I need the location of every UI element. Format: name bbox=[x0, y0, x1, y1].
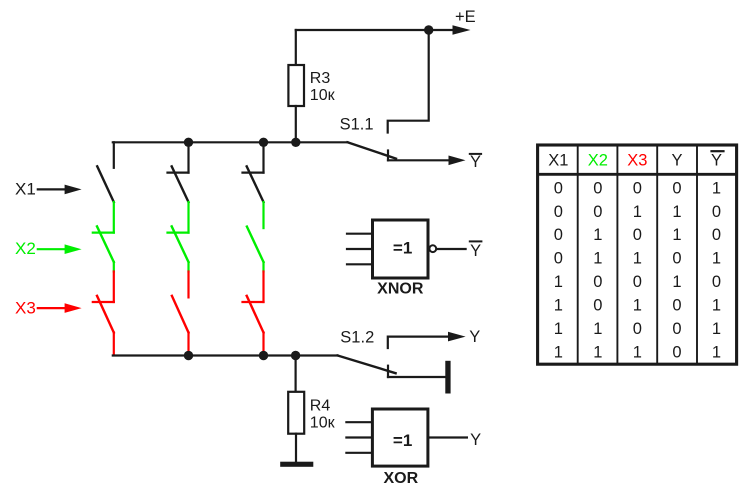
gate XOR input stubs bbox=[346, 421, 372, 423]
switch S1.2 blade bbox=[338, 356, 396, 374]
svg-text:1: 1 bbox=[672, 226, 681, 244]
svg-text:0: 0 bbox=[712, 273, 721, 291]
svg-text:0: 0 bbox=[712, 203, 721, 221]
svg-text:0: 0 bbox=[633, 273, 642, 291]
svg-text:1: 1 bbox=[633, 250, 642, 268]
table data rows bbox=[554, 179, 721, 361]
gate XNOR input stubs bbox=[347, 233, 373, 235]
svg-text:1: 1 bbox=[633, 297, 642, 315]
svg-text:0: 0 bbox=[672, 320, 681, 338]
op XOR gate U2 bbox=[346, 409, 481, 487]
ground bbox=[280, 462, 313, 467]
svg-text:0: 0 bbox=[672, 297, 681, 315]
svg-text:10к: 10к bbox=[310, 414, 336, 431]
node bottom bus R4 bbox=[291, 351, 300, 360]
wire S1.1 output bbox=[388, 159, 449, 161]
table header labels bbox=[548, 151, 722, 169]
svg-text:X2: X2 bbox=[588, 151, 608, 169]
svg-text:Y: Y bbox=[671, 151, 682, 169]
switch S1.1 blade bbox=[348, 142, 397, 158]
output arrow Y bbox=[448, 332, 466, 342]
wire R3 top bbox=[295, 30, 297, 65]
wire col2 top stub bbox=[187, 142, 189, 172]
switch S1.1 output contact riser bbox=[387, 151, 389, 161]
wire col1 X1-X2 (green) bbox=[113, 202, 115, 233]
switch col3 X1 blade bbox=[247, 166, 264, 202]
svg-text:Y: Y bbox=[470, 431, 481, 449]
svg-text:0: 0 bbox=[672, 343, 681, 361]
switch column 2 : X1 closed, X2 closed, X3 open bbox=[168, 142, 189, 354]
table column separators bbox=[578, 146, 697, 362]
node bottom bus col3 bbox=[259, 351, 268, 360]
svg-text:1: 1 bbox=[554, 320, 563, 338]
wire XNOR output bbox=[437, 248, 466, 250]
svg-text:0: 0 bbox=[593, 203, 602, 221]
switch col1 X1 blade (open) bbox=[97, 166, 114, 202]
wire col1 bottom (red) bbox=[113, 333, 115, 355]
gate XNOR inversion bubble bbox=[429, 245, 436, 252]
switch col1 X2 bar (closed, green) bbox=[93, 232, 114, 234]
svg-text:0: 0 bbox=[633, 179, 642, 197]
wire col1 top stub bbox=[113, 142, 115, 168]
wire bottom bus bbox=[113, 354, 338, 356]
svg-text:X1: X1 bbox=[15, 180, 36, 199]
svg-text:Y: Y bbox=[470, 153, 481, 171]
svg-text:0: 0 bbox=[633, 320, 642, 338]
wire R4 top bbox=[295, 356, 297, 392]
svg-text:0: 0 bbox=[712, 226, 721, 244]
wire col1 X2-X3 (green then red) bbox=[113, 262, 115, 272]
node top bus R3 bbox=[291, 138, 300, 147]
gate XNOR body bbox=[373, 220, 429, 278]
svg-text:1: 1 bbox=[554, 273, 563, 291]
op XNOR gate U1 bbox=[347, 220, 481, 297]
terminal bar bbox=[445, 361, 450, 394]
wire col2 X1-X2 (green) bbox=[187, 202, 189, 233]
svg-text:Y: Y bbox=[470, 242, 481, 260]
wire col3 top stub bbox=[262, 142, 264, 172]
svg-text:Y: Y bbox=[711, 151, 722, 169]
output arrow Ynot bbox=[449, 156, 466, 166]
svg-text:1: 1 bbox=[633, 203, 642, 221]
switch S1.1 upper throw contact bbox=[388, 30, 429, 133]
svg-text:R4: R4 bbox=[310, 397, 331, 414]
svg-text:1: 1 bbox=[593, 226, 602, 244]
svg-text:0: 0 bbox=[672, 179, 681, 197]
+E supply arrow bbox=[453, 25, 471, 35]
svg-text:10к: 10к bbox=[310, 87, 336, 104]
switch col2 X2 blade (green) bbox=[172, 226, 189, 262]
wire top bus bbox=[113, 141, 348, 143]
switch column 1 : X1 open, X2 closed, X3 closed bbox=[93, 142, 114, 354]
svg-text:1: 1 bbox=[712, 297, 721, 315]
svg-text:R3: R3 bbox=[310, 70, 331, 87]
wire col3 X2-X3 (green then red) bbox=[262, 262, 264, 272]
svg-text:1: 1 bbox=[593, 250, 602, 268]
svg-text:XNOR: XNOR bbox=[377, 280, 424, 297]
node bottom bus col2 bbox=[184, 351, 193, 360]
svg-text:X3: X3 bbox=[627, 151, 647, 169]
svg-text:=1: =1 bbox=[393, 431, 412, 450]
svg-text:1: 1 bbox=[554, 343, 563, 361]
svg-text:1: 1 bbox=[712, 343, 721, 361]
wire S1.2 lower contact bbox=[388, 376, 445, 378]
switch col3 X1 bar (closed) bbox=[243, 172, 264, 174]
svg-text:0: 0 bbox=[554, 226, 563, 244]
wire XOR output bbox=[428, 436, 467, 438]
svg-text:1: 1 bbox=[633, 343, 642, 361]
svg-text:S1.1: S1.1 bbox=[340, 115, 374, 133]
gate XOR body bbox=[372, 409, 428, 466]
wire col2 X2-X3 (green then red) bbox=[187, 262, 189, 272]
switch S1.2 lower contact riser bbox=[387, 366, 389, 377]
svg-text:0: 0 bbox=[554, 203, 563, 221]
wire R3 bottom bbox=[295, 106, 297, 142]
svg-text:1: 1 bbox=[672, 203, 681, 221]
svg-text:S1.2: S1.2 bbox=[340, 329, 374, 347]
resistor R4 bbox=[288, 392, 304, 434]
switch col3 X3 blade (red) bbox=[247, 296, 264, 333]
svg-text:1: 1 bbox=[712, 320, 721, 338]
node top bus col3 bbox=[259, 138, 268, 147]
wire col3 bottom (red) bbox=[262, 333, 264, 355]
wire top supply horizontal bbox=[296, 29, 453, 31]
truth table bbox=[538, 145, 737, 364]
switch col2 X1 blade bbox=[172, 166, 189, 202]
svg-text:0: 0 bbox=[672, 250, 681, 268]
input arrow X3 bbox=[38, 307, 66, 309]
switch column 3 : X1 closed, X2 open, X3 closed bbox=[243, 142, 264, 354]
switch col1 X3 blade (red) bbox=[97, 296, 114, 333]
switch col3 X2 blade (open, green) bbox=[247, 227, 264, 262]
switch col1 X3 bar (closed, red) bbox=[93, 301, 114, 303]
svg-text:X3: X3 bbox=[15, 298, 36, 317]
table outer border bbox=[538, 145, 737, 364]
svg-text:0: 0 bbox=[633, 226, 642, 244]
svg-text:X1: X1 bbox=[548, 151, 568, 169]
node +E junction bbox=[424, 25, 433, 34]
wire R4 bottom bbox=[295, 434, 297, 462]
switch col1 X2 blade (green) bbox=[97, 226, 114, 262]
svg-text:1: 1 bbox=[593, 320, 602, 338]
switch S1.2 upper throw contact bbox=[388, 337, 448, 348]
wire col3 X1-X2 (green) bbox=[262, 202, 264, 228]
svg-text:0: 0 bbox=[593, 297, 602, 315]
svg-text:=1: =1 bbox=[393, 239, 412, 258]
resistor R3 bbox=[288, 65, 304, 106]
svg-text:1: 1 bbox=[554, 297, 563, 315]
svg-text:0: 0 bbox=[554, 250, 563, 268]
switch col2 X1 bar (closed) bbox=[168, 172, 189, 174]
svg-text:Y: Y bbox=[469, 328, 480, 346]
svg-text:1: 1 bbox=[593, 343, 602, 361]
switch col2 X2 bar (closed, green) bbox=[168, 232, 189, 234]
svg-text:0: 0 bbox=[554, 179, 563, 197]
svg-text:XOR: XOR bbox=[383, 470, 418, 487]
input arrow X2 bbox=[38, 248, 66, 250]
svg-text:1: 1 bbox=[672, 273, 681, 291]
table header separator bbox=[539, 173, 735, 176]
wire col2 bottom (red) bbox=[187, 333, 189, 355]
node top bus col2 bbox=[184, 138, 193, 147]
svg-text:1: 1 bbox=[712, 179, 721, 197]
input arrow X1 bbox=[38, 188, 66, 190]
svg-text:1: 1 bbox=[712, 250, 721, 268]
switch col3 X3 bar (closed, red) bbox=[243, 301, 264, 303]
svg-text:0: 0 bbox=[593, 273, 602, 291]
switch col2 X3 blade (open, red) bbox=[172, 296, 189, 333]
svg-text:X2: X2 bbox=[15, 239, 36, 258]
svg-text:0: 0 bbox=[593, 179, 602, 197]
svg-text:+E: +E bbox=[455, 8, 476, 26]
